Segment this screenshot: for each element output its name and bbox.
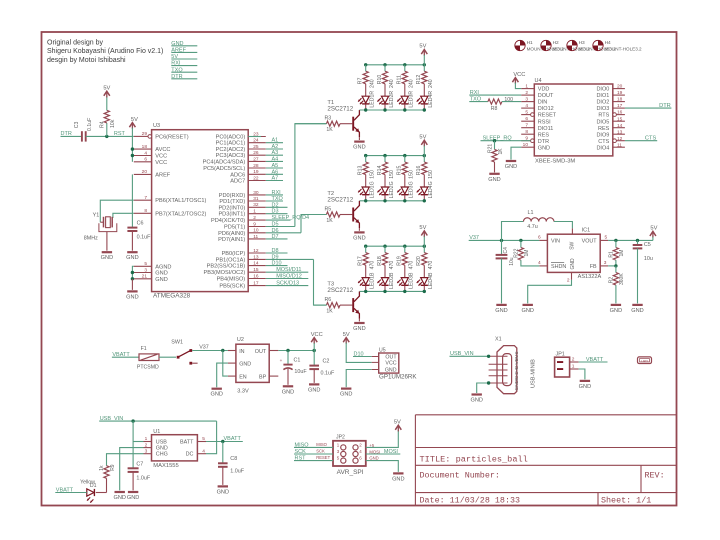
svg-text:X1: X1 (495, 337, 502, 343)
svg-text:GND: GND (126, 294, 138, 300)
svg-text:GND: GND (210, 392, 222, 398)
JP1 pin 1 to ground (570, 364, 585, 380)
U4 pin 9 DTR (521, 136, 549, 145)
ground symbol under C7 (128, 491, 138, 493)
svg-text:CTS: CTS (598, 139, 609, 145)
svg-text:1.0uF: 1.0uF (136, 476, 150, 482)
net label D10 to U5 OUT (353, 351, 372, 357)
svg-text:150: 150 (370, 170, 376, 179)
svg-text:R10: R10 (377, 75, 383, 85)
svg-text:AGND: AGND (155, 264, 171, 270)
resistor R12 240 (416, 65, 434, 96)
svg-text:PC2(ADC2): PC2(ADC2) (216, 147, 246, 153)
power symbol 5V for JP2 (395, 425, 401, 430)
svg-text:DC: DC (186, 452, 194, 458)
net stub RXI (171, 61, 197, 67)
svg-text:16: 16 (253, 273, 259, 279)
svg-text:SW1: SW1 (171, 340, 183, 346)
svg-text:MOUNT-HOLE3.2: MOUNT-HOLE3.2 (605, 47, 642, 52)
U3 pin 11 PD7(AIN1) net D7 (218, 234, 287, 243)
svg-text:1M: 1M (619, 250, 625, 257)
svg-text:1: 1 (572, 364, 575, 370)
svg-text:U2: U2 (237, 337, 244, 343)
wire VOUT rail to 5V (608, 239, 653, 242)
svg-text:29: 29 (142, 131, 148, 137)
wire U4 GND pin10 to ground (511, 147, 521, 159)
wire VCC to U4 pin1 (515, 83, 521, 89)
svg-text:2: 2 (253, 215, 256, 221)
wire net D5 to T1 base resistor (295, 124, 327, 227)
drawing frame border (42, 32, 677, 506)
svg-text:IN: IN (239, 349, 244, 355)
svg-text:OUT: OUT (255, 349, 267, 355)
svg-text:5V: 5V (131, 117, 138, 123)
LED LED2R (377, 91, 395, 110)
svg-text:U3: U3 (153, 123, 160, 129)
wire JP2 pin6 to ground (366, 461, 399, 472)
svg-text:AREF: AREF (155, 172, 171, 178)
svg-text:5: 5 (337, 456, 340, 461)
svg-text:V37: V37 (199, 345, 209, 351)
svg-text:AVCC: AVCC (155, 147, 170, 153)
ground symbol under crystal (102, 251, 112, 253)
wire net D6 to T2 base resistor (301, 215, 326, 233)
svg-text:C7: C7 (136, 462, 143, 468)
svg-text:Y1: Y1 (93, 213, 100, 219)
svg-text:240: 240 (370, 79, 376, 88)
svg-text:10k: 10k (110, 119, 116, 128)
wire XTAL1 from U3 pin7 to crystal (100, 200, 134, 222)
LED LED3G (397, 181, 415, 200)
svg-text:R11: R11 (397, 75, 403, 84)
capacitor C3 0.1uF (74, 118, 93, 142)
wire VCC rail from U2 OUT (278, 349, 316, 352)
svg-text:1K: 1K (326, 309, 333, 315)
ground symbol under C6 (127, 251, 137, 253)
net stub DTR (171, 74, 197, 80)
svg-text:VBATT: VBATT (586, 357, 604, 363)
svg-text:240: 240 (409, 79, 415, 88)
LED bank anode rail (T3 group) (364, 245, 426, 248)
ground symbol under C8 (218, 485, 228, 487)
svg-text:22: 22 (253, 175, 259, 181)
U3 pin 30 PD0(RXD) net RXI (219, 190, 283, 199)
U3 pin 13 PB1(OC1A) net D9 (216, 254, 314, 263)
svg-text:PD0(RXD): PD0(RXD) (219, 193, 246, 199)
U4 pin 10 GND (521, 142, 550, 151)
svg-text:GND: GND (353, 326, 365, 332)
resistor R3 1K base resistor of T1 (295, 116, 352, 134)
svg-text:0.1uF: 0.1uF (87, 118, 93, 131)
svg-text:R19: R19 (397, 256, 403, 266)
power symbol 5V feeding AVCC/VCC (129, 123, 135, 128)
X1 pin VBUS (489, 351, 520, 364)
U3 pin 3 GND (134, 267, 168, 276)
svg-text:VCC: VCC (155, 154, 167, 160)
svg-text:REV:: REV: (645, 471, 665, 481)
net label VBATT into fuse (112, 352, 139, 358)
ground symbol of T1 (354, 141, 364, 143)
wire X1 GND to ground (477, 381, 491, 393)
IC U1 MAX1555 body (152, 429, 198, 469)
svg-text:H2: H2 (553, 40, 559, 46)
svg-text:30: 30 (253, 190, 259, 196)
svg-text:PC3(ADC3): PC3(ADC3) (216, 153, 246, 159)
svg-text:6: 6 (525, 116, 528, 122)
svg-text:GND: GND (538, 145, 550, 151)
svg-text:1M: 1M (524, 250, 530, 257)
LED LED2G (377, 181, 395, 200)
connector X1 USB-MINIB shell (495, 337, 537, 394)
svg-text:CHG: CHG (156, 452, 168, 458)
power symbol 5V for U5 (343, 338, 349, 343)
svg-text:2: 2 (145, 442, 148, 448)
U3 pin 9 PD5(T1) net D5 (224, 221, 295, 230)
mounting hole H2 MOUNT-HOLE3.2 (541, 40, 590, 52)
svg-text:LED4B: LED4B (428, 272, 434, 289)
IC U3 ATMEGA328 body (152, 123, 249, 299)
U3 pin 21 GND (134, 274, 168, 283)
svg-text:28: 28 (253, 163, 259, 169)
svg-text:5V: 5V (419, 225, 426, 231)
U4 pin 2 DOUT (521, 90, 554, 99)
svg-text:7: 7 (525, 123, 528, 129)
net label RST into JP2 (294, 456, 333, 462)
connector JP2 AVR_SPI header (333, 435, 366, 476)
U3 pin 32 PD2(INT0) net D2 (218, 202, 287, 211)
transistor T2 2SC2712 (327, 191, 359, 231)
svg-text:PB6(XTAL1/TOSC1): PB6(XTAL1/TOSC1) (155, 198, 206, 204)
svg-text:GND: GND (308, 387, 320, 393)
net label V37 at boost input (469, 235, 540, 242)
svg-text:2: 2 (572, 357, 575, 363)
svg-text:PD1(TXD): PD1(TXD) (219, 199, 245, 205)
U3 pin 12 PB0(ICP) net D8 (222, 248, 288, 257)
svg-text:10: 10 (253, 228, 259, 234)
power symbol VCC for U4 (512, 78, 518, 83)
svg-text:360K: 360K (619, 273, 625, 285)
wire U2 EN tied to IN (223, 351, 228, 377)
U4 pin 5 RESET (521, 110, 557, 119)
wire BATT to VBATT label (206, 436, 243, 443)
title block outline (415, 415, 676, 506)
svg-text:15: 15 (617, 116, 623, 122)
wire U5 GND to ground (346, 370, 372, 388)
svg-text:LIPO: LIPO (641, 359, 649, 363)
ground symbol for U2 (212, 388, 222, 390)
JP2 pins 3 and 4 (337, 449, 363, 457)
IC1 pin 4 SHDN stub (538, 260, 547, 266)
svg-text:AS1322A: AS1322A (578, 274, 602, 280)
svg-text:H3: H3 (579, 40, 585, 46)
svg-text:GND: GND (155, 271, 167, 277)
U4 pin 14 RES (598, 123, 625, 132)
U3 pin 15 PB3(MOSI/OC2) net MOSI/D11 (204, 267, 309, 276)
power symbol 5V at boost output (650, 231, 656, 236)
resistor R6 1K base resistor of T3 (314, 297, 353, 315)
svg-text:MISO/D12: MISO/D12 (276, 274, 302, 280)
svg-text:5: 5 (525, 110, 528, 116)
ground symbol for JP2 (393, 472, 403, 474)
resistor R21 1K pulldown (487, 141, 504, 173)
svg-text:LED1G: LED1G (370, 181, 376, 198)
svg-text:VBATT: VBATT (224, 436, 242, 442)
svg-text:LED4G: LED4G (428, 181, 434, 198)
svg-text:5V: 5V (394, 419, 401, 425)
resistor R18 470 (377, 246, 395, 277)
X1 pin ID (489, 375, 520, 380)
svg-text:PD6(AIN0): PD6(AIN0) (218, 231, 245, 237)
svg-text:R9: R9 (110, 464, 116, 471)
svg-text:5V: 5V (419, 44, 426, 50)
svg-text:A1: A1 (272, 138, 279, 144)
svg-text:desgin by Motoi Ishibashi: desgin by Motoi Ishibashi (47, 57, 126, 64)
svg-text:RESET: RESET (316, 455, 330, 460)
ground symbol under C4 (496, 304, 506, 306)
svg-text:RESET: RESET (538, 113, 557, 119)
svg-text:18: 18 (617, 97, 623, 103)
LED LED4G (417, 181, 435, 200)
svg-text:H4: H4 (605, 40, 611, 46)
svg-text:D+: D+ (514, 368, 520, 374)
svg-text:USB: USB (156, 439, 167, 445)
svg-text:150: 150 (389, 170, 395, 179)
svg-text:LED4R: LED4R (428, 91, 434, 108)
svg-text:R8: R8 (491, 106, 498, 112)
LED bank cathode rail to T1 collector (359, 108, 426, 111)
svg-text:4: 4 (202, 448, 205, 454)
svg-text:PB4(MISO): PB4(MISO) (217, 277, 246, 283)
JP2 pins 1 and 2 (337, 442, 363, 450)
ground symbol under R2 (611, 304, 621, 306)
svg-text:GND: GND (385, 367, 397, 373)
U3 pin 2 PD4(XCK/T0) net SLEEP_RQ/D4 (211, 215, 309, 224)
net stub 5V (171, 54, 197, 60)
svg-text:1k: 1k (99, 465, 105, 471)
svg-text:FB: FB (590, 264, 597, 270)
svg-text:6: 6 (538, 235, 541, 241)
net label SLEEP_RQ wire to U4 DTR pin (481, 136, 531, 143)
svg-text:A5: A5 (272, 163, 279, 169)
U3 pin 25 PC2(ADC2) net A2 (216, 144, 283, 153)
svg-text:R3: R3 (325, 116, 332, 122)
svg-text:PC6(RESET): PC6(RESET) (155, 134, 188, 140)
svg-text:470: 470 (428, 261, 434, 270)
svg-text:10: 10 (523, 142, 529, 148)
svg-text:GND: GND (610, 308, 622, 314)
svg-text:11: 11 (617, 142, 622, 148)
svg-text:LED2R: LED2R (389, 91, 395, 108)
U4 pin 18 DIO2 (596, 97, 624, 106)
svg-text:20: 20 (142, 169, 148, 175)
LED LED2B (377, 272, 395, 291)
svg-text:20: 20 (617, 84, 623, 90)
battery part LIPO (638, 357, 652, 364)
svg-text:13: 13 (617, 129, 623, 135)
resistor R14 150 (377, 156, 395, 187)
svg-text:ADC6: ADC6 (230, 172, 245, 178)
svg-text:R6: R6 (325, 297, 332, 303)
U3 pin 20 AREF (134, 169, 171, 178)
svg-text:VBUS: VBUS (514, 351, 520, 364)
svg-text:R16: R16 (416, 165, 422, 175)
svg-text:PD4(XCK/T0): PD4(XCK/T0) (211, 218, 245, 224)
net label SCK into JP2 (294, 449, 333, 455)
resistor R1 1M feedback upper (609, 240, 625, 266)
svg-text:H1: H1 (527, 40, 533, 46)
ground symbol under C2 (309, 383, 319, 385)
svg-text:GND: GND (505, 164, 517, 170)
svg-text:PC0(ADC0): PC0(ADC0) (216, 135, 246, 141)
ground symbol for IC1 (523, 304, 533, 306)
svg-text:5V: 5V (103, 85, 110, 91)
svg-text:GND: GND (113, 495, 125, 501)
svg-text:GND: GND (353, 145, 365, 151)
svg-text:D10: D10 (272, 261, 282, 267)
svg-text:4: 4 (144, 150, 147, 156)
net label USB_VIN wire (99, 416, 216, 423)
X1 pin D- (489, 364, 520, 369)
U3 pin 18 AVCC (134, 144, 171, 153)
svg-text:PD3(INT1): PD3(INT1) (218, 212, 245, 218)
U4 pin 20 DIO0 (596, 84, 624, 93)
svg-text:MAX1555: MAX1555 (153, 463, 178, 469)
svg-text:PB1(OC1A): PB1(OC1A) (216, 257, 246, 263)
net label RXI wire to U4 DOUT (469, 90, 521, 96)
svg-text:1: 1 (253, 209, 256, 215)
svg-text:A7: A7 (272, 176, 279, 182)
svg-text:3.3V: 3.3V (237, 388, 249, 394)
svg-text:GND: GND (570, 258, 576, 270)
svg-text:150: 150 (409, 170, 415, 179)
svg-text:XBEE-SMD-3M: XBEE-SMD-3M (535, 158, 575, 164)
svg-text:2: 2 (359, 442, 362, 447)
svg-text:GP1UM26RK: GP1UM26RK (379, 374, 417, 381)
svg-text:4: 4 (359, 449, 362, 454)
U1 pin 5 BATT stub (197, 436, 206, 442)
svg-text:GND: GND (579, 384, 591, 390)
power symbol 5V above R4 (104, 91, 110, 96)
svg-text:14: 14 (253, 261, 259, 267)
svg-text:GND: GND (155, 277, 167, 283)
svg-text:17: 17 (617, 103, 623, 109)
svg-text:3: 3 (525, 97, 528, 103)
svg-text:1.0uF: 1.0uF (230, 469, 244, 475)
svg-text:R4: R4 (100, 121, 106, 128)
svg-text:15: 15 (253, 267, 259, 273)
svg-text:6: 6 (144, 157, 147, 163)
U4 pin 13 DIO9 (596, 129, 624, 138)
svg-text:31: 31 (253, 196, 259, 202)
svg-text:R20: R20 (416, 256, 422, 266)
svg-text:TXO: TXO (272, 196, 284, 202)
U3 pin 27 PC4(ADC4/SDA) net A4 (203, 156, 283, 165)
inductor L1 4.7u (502, 210, 573, 241)
svg-text:C5: C5 (644, 242, 651, 248)
U3 pin 26 PC3(ADC3) net A3 (216, 150, 283, 159)
svg-text:21: 21 (142, 274, 148, 280)
wire USB_VIN down to U1 pin1 and C7 (133, 421, 143, 468)
svg-text:470: 470 (409, 261, 415, 270)
IC1 pin 5 VOUT stub (600, 235, 608, 241)
svg-text:LED3G: LED3G (409, 181, 415, 198)
power symbol 5V of bank T3 (421, 231, 427, 236)
wire AREF from U3 pin20 down to C6 (131, 174, 133, 227)
resistor R7 240 (358, 65, 376, 96)
U3 pin 29 PC6(RESET) (134, 131, 189, 140)
svg-text:17: 17 (253, 281, 259, 287)
LED LED1B (358, 272, 376, 291)
U3 pin 4 VCC (134, 150, 167, 159)
svg-text:2: 2 (525, 90, 528, 96)
svg-text:4: 4 (525, 103, 528, 109)
power symbol VCC above rail (311, 338, 317, 343)
svg-text:PC4(ADC4/SDA): PC4(ADC4/SDA) (203, 159, 246, 165)
svg-text:R14: R14 (377, 165, 383, 175)
ground symbol for X1 (472, 393, 482, 395)
svg-text:DIO1: DIO1 (596, 93, 609, 99)
capacitor C2 0.1uF (309, 351, 335, 383)
resistor R9 1k charge LED (96, 464, 116, 492)
svg-text:IC1: IC1 (582, 227, 591, 233)
svg-text:Shigeru Kobayashi (Arudino Fio: Shigeru Kobayashi (Arudino Fio v2.1) (47, 48, 163, 55)
svg-text:27: 27 (253, 156, 259, 162)
svg-text:150: 150 (428, 170, 434, 179)
net stub GND (171, 41, 197, 47)
U3 pin 7 PB6(XTAL1/TOSC1) (134, 195, 207, 204)
svg-text:VIN: VIN (551, 238, 560, 244)
svg-text:GND: GND (514, 379, 520, 390)
svg-text:13: 13 (253, 254, 259, 260)
svg-text:PD5(T1): PD5(T1) (224, 225, 245, 231)
svg-text:240: 240 (389, 79, 395, 88)
svg-text:DIN: DIN (538, 100, 548, 106)
svg-text:5: 5 (144, 261, 147, 267)
U3 pin 6 VCC (134, 157, 167, 166)
svg-text:U4: U4 (535, 78, 542, 84)
LED bank cathode rail to T3 collector (359, 290, 426, 293)
svg-text:R22: R22 (514, 248, 520, 257)
svg-text:4.7u: 4.7u (527, 224, 538, 230)
U4 pin 1 VDD (521, 84, 549, 93)
svg-text:JP1: JP1 (556, 351, 565, 357)
resistor R13 150 (358, 156, 376, 187)
wire RST net: C3 to R4/5V junction to U3 pin29 (86, 131, 134, 138)
svg-text:LED1B: LED1B (370, 272, 376, 289)
net label MISO into JP2 (294, 442, 333, 448)
LED LED1G (358, 181, 376, 200)
wire USB_VIN to U1 DC pin (206, 421, 217, 454)
svg-text:R2: R2 (609, 277, 615, 284)
svg-text:R15: R15 (397, 165, 403, 175)
svg-text:U5: U5 (379, 348, 386, 354)
svg-text:PB3(MOSI/OC2): PB3(MOSI/OC2) (204, 270, 246, 276)
svg-text:8MHz: 8MHz (84, 236, 98, 242)
svg-text:+: + (280, 358, 283, 363)
svg-text:25: 25 (253, 144, 259, 150)
wire CHG to R9 (107, 454, 144, 466)
svg-text:USB-MINIB: USB-MINIB (531, 359, 537, 388)
U4 pin 8 RES (521, 129, 549, 138)
svg-text:DIO3: DIO3 (596, 106, 609, 112)
svg-text:8: 8 (144, 208, 147, 214)
svg-text:A2: A2 (272, 144, 279, 150)
U3 pin 16 PB4(MISO) net MISO/D12 (217, 273, 309, 282)
svg-text:GND: GND (495, 308, 507, 314)
capacitor C1 10uF polarized (280, 351, 308, 385)
svg-text:C2: C2 (323, 359, 330, 365)
LED D1 Yellow (80, 479, 97, 502)
